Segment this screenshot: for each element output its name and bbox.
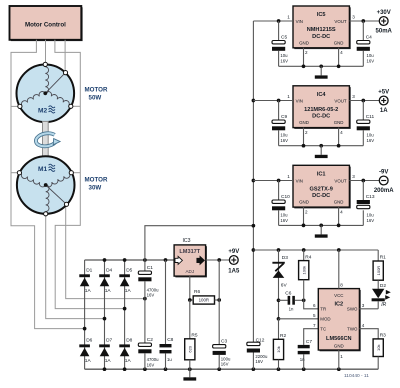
svg-text:C8: C8 — [167, 337, 173, 343]
supply rail to LM566 section — [253, 249, 378, 251]
wire stub to M1 left terminal — [11, 172, 18, 174]
svg-text:100R: 100R — [199, 298, 210, 303]
svg-text:-9V: -9V — [379, 170, 388, 176]
svg-text:R4: R4 — [305, 254, 311, 260]
capacitor C5 10u 16V — [278, 21, 280, 41]
wire IC5 VOUT — [349, 20, 379, 22]
diode D5 1A — [119, 274, 130, 277]
svg-text:+9V: +9V — [228, 249, 239, 255]
svg-text:16V: 16V — [255, 359, 263, 364]
svg-text:GND: GND — [299, 200, 309, 205]
svg-text:D8: D8 — [126, 338, 132, 344]
wire ADJ pin down — [189, 276, 191, 300]
svg-text:16V: 16V — [280, 138, 288, 143]
svg-text:DC-DC: DC-DC — [312, 193, 330, 199]
svg-text:4: 4 — [340, 130, 343, 135]
wire IC5 VIN — [253, 20, 293, 22]
capacitor C10 10u 16V — [278, 181, 280, 201]
capacitor C4 10u 16V — [362, 21, 364, 41]
svg-text:R1: R1 — [380, 255, 386, 261]
svg-text:Motor Control: Motor Control — [25, 21, 66, 28]
svg-text:D3: D3 — [282, 255, 288, 261]
motor shaft — [43, 121, 49, 156]
svg-text:1u: 1u — [167, 357, 172, 362]
svg-text:DC-DC: DC-DC — [312, 114, 330, 120]
svg-text:VOUT: VOUT — [334, 178, 347, 183]
svg-text:C3: C3 — [221, 339, 227, 345]
diode column D5/D8 wire — [124, 260, 126, 369]
svg-text:110440 - 11: 110440 - 11 — [344, 373, 369, 379]
LM317 output arrow — [197, 256, 204, 264]
wire stub to M2 left terminal — [11, 105, 18, 107]
svg-text:R3: R3 — [380, 333, 386, 339]
svg-text:2: 2 — [305, 210, 308, 215]
svg-text:MOTOR: MOTOR — [85, 177, 108, 184]
svg-text:121MR6-05-2: 121MR6-05-2 — [304, 107, 338, 113]
svg-text:D7: D7 — [106, 338, 112, 344]
capacitor C11 10u 16V — [362, 101, 364, 121]
junction dots bridge — [103, 258, 107, 262]
svg-text:16V: 16V — [280, 218, 288, 223]
svg-text:100u: 100u — [221, 356, 231, 361]
wire MOD pin 5 — [279, 318, 319, 320]
wire IC4 VOUT — [349, 100, 379, 102]
svg-text:100k: 100k — [301, 266, 306, 275]
svg-text:2: 2 — [305, 50, 308, 55]
svg-text:100R: 100R — [376, 266, 381, 276]
svg-text:D4: D4 — [106, 268, 112, 274]
svg-text:6: 6 — [313, 303, 316, 308]
wire M1 bottom terminal to D7 column — [46, 214, 105, 318]
wire GND pin 1 — [338, 350, 340, 369]
svg-text:1A: 1A — [85, 358, 92, 364]
svg-text:VIN: VIN — [296, 19, 303, 24]
svg-text:16V: 16V — [280, 58, 288, 63]
svg-text:C2: C2 — [147, 337, 153, 343]
wire +9V down to C3 — [218, 260, 220, 345]
svg-text:R5: R5 — [191, 333, 197, 339]
svg-text:16V: 16V — [147, 362, 155, 367]
svg-text:VCC: VCC — [334, 293, 343, 298]
svg-text:1n: 1n — [289, 306, 294, 311]
svg-text:4700u: 4700u — [147, 357, 160, 362]
svg-text:C6: C6 — [285, 290, 291, 296]
diode D6 1A — [79, 344, 90, 347]
wire VCC pin 8 — [338, 250, 340, 289]
svg-text:6V: 6V — [281, 282, 288, 288]
ground symbol IC1 — [320, 225, 322, 234]
svg-text:GND: GND — [299, 120, 309, 125]
svg-text:D2: D2 — [380, 283, 386, 289]
wires IC4 GND pins 2 and 4 — [303, 128, 305, 146]
svg-text:C13: C13 — [366, 194, 375, 200]
svg-text:10u: 10u — [367, 53, 375, 58]
capacitor C9 10u 16V — [278, 101, 280, 121]
diode D1 1A — [79, 274, 90, 277]
svg-text:R6: R6 — [194, 289, 200, 295]
svg-text:GND: GND — [334, 344, 344, 349]
svg-text:IC1: IC1 — [317, 171, 326, 177]
svg-text:+30V: +30V — [377, 10, 391, 16]
capacitor C7 1n — [298, 345, 310, 348]
ground symbol IC5 — [320, 66, 322, 75]
svg-text:M2: M2 — [38, 108, 47, 115]
svg-text:D5: D5 — [126, 268, 132, 274]
motor control box — [11, 7, 83, 41]
svg-text:3: 3 — [352, 174, 355, 179]
svg-text:1: 1 — [287, 94, 290, 99]
svg-text:DC-DC: DC-DC — [312, 34, 330, 40]
svg-text:1n: 1n — [300, 357, 305, 362]
svg-text:16V: 16V — [367, 138, 375, 143]
svg-text:NMH1215S: NMH1215S — [307, 27, 336, 33]
terminal +5V 1A — [379, 96, 388, 105]
capacitor C2 4700u 16V — [138, 343, 151, 346]
svg-text:VIN: VIN — [296, 98, 303, 103]
wire motor-control right loop to D8 column — [55, 40, 125, 309]
svg-text:C7: C7 — [306, 339, 312, 345]
svg-text:1A: 1A — [105, 288, 112, 294]
rotation arrow — [35, 131, 61, 147]
IC IC4 box — [294, 87, 350, 129]
wire IC1 VOUT — [349, 180, 379, 182]
capacitor C13 10u 16V — [362, 181, 364, 201]
svg-text:TR: TR — [320, 307, 326, 312]
ground symbol IC4 — [320, 146, 322, 155]
svg-text:50W: 50W — [89, 95, 102, 102]
capacitor C1 4700u 16V — [144, 260, 146, 271]
zener diode D3 6V — [278, 250, 280, 319]
capacitor C12 2200u 16V — [247, 342, 260, 345]
svg-text:C12: C12 — [256, 337, 265, 343]
diode D8 1A — [119, 344, 130, 347]
svg-text:10u: 10u — [280, 212, 288, 217]
svg-text:MOD: MOD — [320, 317, 330, 322]
wire stub to M2 right terminal — [72, 105, 80, 107]
wire motor-control to M2 top terminal — [45, 40, 47, 63]
svg-text:1A: 1A — [85, 288, 92, 294]
svg-text:30W: 30W — [89, 185, 102, 192]
wire bridge rail up to DC-DC bus — [145, 226, 254, 260]
IC2 LM566CN box — [320, 290, 361, 351]
svg-text:MOTOR: MOTOR — [85, 87, 108, 94]
svg-text:16V: 16V — [221, 362, 229, 367]
svg-text:GND: GND — [334, 40, 344, 45]
svg-text:3: 3 — [352, 14, 355, 19]
svg-text:M1: M1 — [38, 166, 47, 173]
svg-text:IC3: IC3 — [182, 238, 190, 244]
svg-text:GND: GND — [299, 40, 309, 45]
wire stub to M1 right terminal — [73, 172, 80, 174]
wire LM317 output — [206, 259, 230, 261]
svg-text:10k: 10k — [376, 344, 381, 350]
svg-text:4: 4 — [340, 50, 343, 55]
svg-text:1A: 1A — [380, 108, 388, 114]
capacitor C6 1n — [279, 299, 288, 301]
svg-text:IC5: IC5 — [317, 12, 326, 18]
svg-text:2200u: 2200u — [255, 354, 268, 359]
resistor R2 10k — [278, 319, 280, 340]
svg-text:+5V: +5V — [378, 90, 389, 96]
svg-text:1: 1 — [287, 14, 290, 19]
diode column D1/D6 wire — [84, 260, 86, 369]
svg-text:ADJ: ADJ — [185, 269, 194, 274]
svg-text:1A5: 1A5 — [228, 269, 240, 275]
svg-text:4: 4 — [340, 210, 343, 215]
svg-text:1: 1 — [340, 354, 343, 359]
svg-text:3: 3 — [362, 303, 365, 308]
svg-text:10k: 10k — [276, 346, 281, 352]
svg-text:GS2TX-9: GS2TX-9 — [310, 187, 333, 193]
wire motor-control to M2 upper-right terminal — [64, 40, 66, 71]
wire SWO pin 3 — [359, 308, 378, 310]
svg-text:IR: IR — [381, 302, 386, 308]
svg-text:7: 7 — [313, 323, 316, 328]
bottom ground rail — [85, 368, 379, 370]
LED D2 IR — [372, 289, 384, 299]
svg-text:10u: 10u — [280, 132, 288, 137]
resistor R5 620R — [189, 300, 191, 339]
svg-text:2: 2 — [305, 130, 308, 135]
svg-text:LM317T: LM317T — [179, 249, 200, 255]
svg-text:C5: C5 — [281, 35, 287, 41]
svg-text:C4: C4 — [366, 35, 372, 41]
svg-text:4: 4 — [362, 323, 365, 328]
svg-text:50mA: 50mA — [376, 29, 393, 35]
svg-text:D1: D1 — [86, 268, 92, 274]
svg-text:IC4: IC4 — [317, 92, 327, 98]
resistor R1 100R — [377, 250, 379, 261]
motor M2 50W — [17, 65, 75, 123]
svg-text:C10: C10 — [281, 194, 290, 200]
svg-text:10u: 10u — [280, 53, 288, 58]
svg-text:16V: 16V — [147, 293, 155, 298]
motor M1 30W — [17, 156, 75, 214]
svg-text:3: 3 — [352, 94, 355, 99]
svg-text:1A: 1A — [125, 288, 132, 294]
wire M1 lower-right terminal to C1/C2 centre tap — [66, 205, 145, 298]
svg-text:GND: GND — [334, 200, 344, 205]
ground below R5 — [189, 369, 191, 377]
svg-text:16V: 16V — [367, 58, 375, 63]
terminal +30V 50mA — [379, 17, 388, 26]
svg-text:8: 8 — [340, 283, 343, 288]
capacitor C8 1u — [165, 260, 167, 344]
svg-text:1A: 1A — [125, 358, 132, 364]
svg-text:1: 1 — [287, 174, 290, 179]
svg-text:GND: GND — [334, 120, 344, 125]
wire motor-control left loop to D6 column — [11, 40, 85, 329]
svg-text:R2: R2 — [280, 333, 286, 339]
svg-text:LM566CN: LM566CN — [326, 336, 352, 342]
svg-text:IC2: IC2 — [334, 301, 343, 307]
wire IC1 VIN — [253, 180, 293, 182]
terminal +9V 1A5 — [229, 256, 238, 265]
wire TR pin 6 — [304, 300, 319, 309]
svg-text:620: 620 — [187, 345, 192, 352]
capacitor C3 100u 16V — [213, 345, 226, 348]
LM317 input arrow — [175, 256, 182, 264]
svg-text:1A: 1A — [105, 358, 112, 364]
resistor R4 100k — [303, 250, 305, 261]
main DC bus — [252, 21, 254, 342]
diode D7 1A — [99, 344, 110, 347]
svg-text:C1: C1 — [147, 265, 153, 271]
resistor R6 100R — [193, 296, 214, 304]
op-amp IC3 LM317T regulator — [175, 246, 207, 277]
svg-text:C9: C9 — [281, 114, 287, 120]
svg-text:C11: C11 — [366, 114, 375, 120]
svg-text:VIN: VIN — [296, 178, 303, 183]
wires IC1 GND pins 2 and 4 — [303, 207, 305, 225]
resistor R3 10k — [373, 339, 383, 357]
IC IC1 box — [294, 167, 350, 209]
bridge positive rail — [85, 259, 175, 261]
svg-text:VOUT: VOUT — [334, 98, 347, 103]
svg-text:TWO: TWO — [347, 326, 358, 331]
svg-text:D6: D6 — [86, 338, 92, 344]
terminal -9V 200mA — [379, 176, 388, 185]
svg-text:10u: 10u — [367, 212, 375, 217]
svg-text:TC: TC — [320, 326, 326, 331]
svg-text:5: 5 — [313, 313, 316, 318]
svg-text:200mA: 200mA — [374, 188, 394, 194]
IC IC5 box — [294, 7, 350, 49]
svg-text:SWO: SWO — [347, 307, 358, 312]
bus junction dots — [252, 99, 256, 103]
wires IC5 GND pins 2 and 4 — [303, 48, 305, 67]
svg-text:16V: 16V — [367, 218, 375, 223]
wire TC pin 7 — [304, 329, 319, 345]
svg-text:10u: 10u — [367, 132, 375, 137]
diode D4 1A — [99, 274, 110, 277]
svg-text:VOUT: VOUT — [334, 19, 347, 24]
wire IC4 VIN — [253, 100, 293, 102]
diode column D4/D7 wire — [104, 260, 106, 369]
wire TWO pin 4 to R3 — [359, 329, 378, 339]
